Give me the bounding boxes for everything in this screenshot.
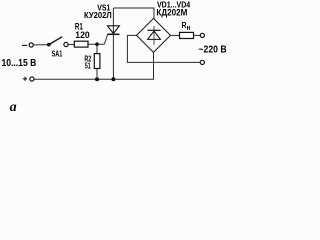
svg-text:120: 120: [75, 30, 89, 40]
bridge inner diode lead: [153, 26, 155, 45]
bridge inner diode cathode bar: [147, 29, 160, 31]
junction dot cathode-bottom rail: [111, 77, 115, 81]
wire from minus terminal to switch: [33, 44, 47, 46]
svg-text:51: 51: [85, 62, 91, 71]
svg-text:КУ202Л: КУ202Л: [84, 10, 112, 20]
resistor R2 bottom lead: [96, 69, 98, 80]
thyristor VS1 gate wire: [104, 34, 107, 44]
terminal plus: [30, 77, 34, 81]
svg-text:10...15 В: 10...15 В: [2, 58, 37, 69]
svg-text:SA1: SA1: [52, 48, 63, 58]
svg-text:~220 В: ~220 В: [199, 44, 227, 55]
wire bridge left vertex to lower mains terminal: [127, 35, 200, 62]
resistor RH: [180, 32, 194, 38]
thyristor VS1 cathode lead through triangle: [112, 26, 114, 79]
bottom rail wire: [34, 78, 154, 80]
minus sign of DC input: [22, 44, 27, 46]
plus sign of DC input: [23, 77, 27, 81]
wire bridge right vertex to RH: [171, 34, 180, 36]
resistor R2 leads: [96, 44, 98, 53]
resistor R2: [94, 54, 100, 69]
wire RH to upper mains terminal: [194, 34, 201, 36]
switch SA1 contact terminal: [64, 42, 68, 46]
bridge inner diode triangle: [148, 31, 161, 39]
wire from switch to R1: [68, 44, 74, 46]
wire top rail to bridge: [113, 8, 154, 19]
wire from R1 to gate node: [88, 43, 104, 45]
junction dot R2-bottom rail: [95, 77, 99, 81]
thyristor VS1 anode wire: [112, 8, 114, 26]
thyristor VS1 cathode bar: [107, 33, 119, 35]
bridge VD1...VD4 diamond: [137, 18, 171, 52]
svg-text:КД202М: КД202М: [156, 8, 187, 18]
wire bridge bottom vertex down: [153, 52, 155, 79]
junction node R2 top: [95, 42, 99, 46]
resistor R1: [74, 41, 88, 47]
svg-text:а: а: [10, 100, 17, 115]
terminal mains upper: [200, 33, 204, 37]
switch SA1 pivot dot: [47, 43, 51, 47]
switch SA1 arm: [49, 37, 62, 45]
terminal minus: [29, 43, 33, 47]
thyristor VS1 triangle: [107, 26, 119, 34]
terminal mains lower: [200, 60, 204, 64]
svg-text:н: н: [187, 25, 191, 32]
